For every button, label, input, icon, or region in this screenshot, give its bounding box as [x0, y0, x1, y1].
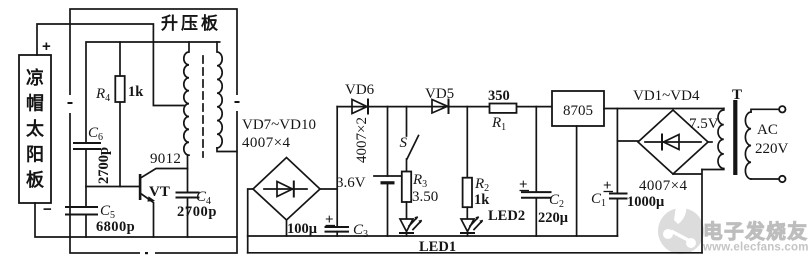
svg-text:电子发烧友: 电子发烧友	[703, 220, 809, 243]
svg-text:2700p: 2700p	[96, 147, 112, 184]
switch S	[407, 107, 419, 172]
svg-text:3.50: 3.50	[412, 189, 438, 205]
wire bridge left corner down to bottom rail	[248, 189, 253, 253]
regulator 8705	[552, 91, 604, 126]
svg-text:板: 板	[26, 169, 45, 190]
svg-text:帽: 帽	[26, 93, 44, 114]
svg-text:VD6: VD6	[345, 82, 375, 98]
capacitor C6	[74, 143, 100, 149]
mid ground rail	[248, 235, 618, 237]
svg-text:4007×4: 4007×4	[242, 135, 290, 151]
wire AC terminal bottom	[751, 178, 779, 180]
plus mark C2	[519, 177, 529, 193]
svg-text:8705: 8705	[563, 103, 593, 119]
battery 3.6V	[374, 107, 401, 236]
transformer core dashed	[202, 56, 204, 157]
transformer primary winding	[184, 42, 189, 155]
wire AC terminal top	[751, 109, 779, 112]
bridge rectifier VD1-VD4	[638, 110, 708, 174]
svg-text:LED2: LED2	[488, 208, 525, 224]
svg-text:+: +	[42, 38, 51, 55]
svg-text:2700p: 2700p	[177, 204, 217, 220]
wire transformer secondary bottom	[702, 169, 724, 171]
wire secondary bottom to box edge	[217, 148, 237, 152]
capacitor C5	[66, 207, 97, 215]
capacitor C3	[326, 227, 349, 236]
svg-text:VD5: VD5	[425, 86, 454, 102]
svg-text:VD1~VD4: VD1~VD4	[633, 88, 700, 104]
capacitor C4	[177, 155, 199, 237]
svg-text:1000μ: 1000μ	[627, 194, 665, 210]
AC terminal circle top	[779, 106, 785, 112]
svg-text:阳: 阳	[26, 145, 44, 165]
svg-text:VT: VT	[149, 184, 170, 200]
resistor R1	[490, 104, 517, 113]
svg-text:1k: 1k	[128, 84, 144, 100]
svg-text:1k: 1k	[474, 192, 490, 208]
wire top rail of oscillator	[86, 42, 220, 143]
LED2	[461, 216, 483, 236]
transformer T core	[733, 100, 737, 175]
svg-text:升压板: 升压板	[161, 13, 221, 33]
AC terminal circle bottom	[779, 176, 785, 182]
bottom rail	[248, 252, 702, 254]
wire bridge bottom to mid rail	[286, 220, 288, 236]
wire battery node vertical	[336, 107, 338, 227]
capacitor C1	[610, 109, 627, 237]
transformer secondary winding	[217, 42, 222, 148]
wire 8705 output to transformer	[604, 108, 724, 110]
transformer T secondary winding	[718, 109, 724, 169]
resistor R2	[463, 107, 472, 219]
watermark logo	[658, 205, 704, 254]
diode VD5	[432, 100, 449, 114]
transformer T primary winding	[745, 112, 751, 179]
wire panel plus to transformer tap	[37, 24, 184, 106]
svg-text:太: 太	[26, 118, 45, 139]
svg-text:350: 350	[488, 88, 510, 104]
svg-text:220μ: 220μ	[538, 210, 569, 226]
svg-text:9012: 9012	[150, 151, 181, 167]
solar panel 凉帽太阳板	[19, 55, 51, 203]
svg-text:7.5V: 7.5V	[689, 116, 719, 132]
svg-text:−: −	[43, 201, 52, 218]
bridge rectifier VD7-VD10	[253, 158, 320, 221]
svg-text:凉: 凉	[26, 67, 44, 88]
wire bridge2 bottom corner to bottom rail	[673, 170, 702, 253]
svg-text:S: S	[400, 135, 408, 151]
svg-text:AC: AC	[757, 122, 778, 138]
resistor R4	[115, 42, 124, 187]
svg-text:www.elecfans.com: www.elecfans.com	[702, 242, 809, 254]
diode VD6	[352, 100, 368, 114]
transistor VT 9012	[139, 169, 188, 238]
wire 8705 ground pin	[576, 126, 578, 236]
wire bridge right corner to battery node	[320, 188, 337, 190]
svg-text:4007×2: 4007×2	[354, 117, 370, 163]
svg-text:100μ: 100μ	[287, 221, 318, 237]
wire bridge2 right corner stub	[708, 141, 712, 143]
wire C6 to C5 to rail	[85, 149, 87, 237]
wire bridge2 plus corner to C1 node	[617, 140, 638, 142]
svg-text:220V: 220V	[755, 141, 789, 157]
boost board box 升压板	[66, 9, 241, 257]
plus mark C3	[325, 212, 335, 228]
plus mark C1	[603, 178, 613, 194]
svg-text:T: T	[732, 87, 742, 103]
wire panel minus to ground rail	[35, 203, 237, 237]
svg-text:VD7~VD10: VD7~VD10	[242, 117, 316, 133]
svg-text:4007×4: 4007×4	[639, 178, 687, 194]
capacitor C2	[522, 107, 551, 236]
LED1	[400, 216, 422, 236]
top wire of middle section	[337, 106, 552, 108]
svg-text:LED1: LED1	[419, 239, 456, 255]
wire base	[86, 186, 139, 188]
resistor R3	[402, 172, 411, 219]
svg-text:6800p: 6800p	[96, 219, 135, 235]
svg-text:3.6V: 3.6V	[336, 175, 366, 191]
